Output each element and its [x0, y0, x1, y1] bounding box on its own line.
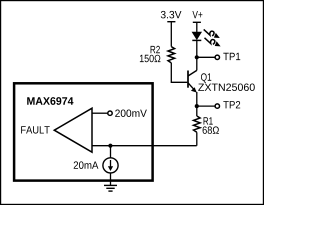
- op-amp comparator U1: [54, 108, 92, 152]
- terminal circle TP1: [215, 55, 219, 59]
- wire LED to node: [196, 40, 198, 70]
- resistor R2: [168, 47, 175, 63]
- label MAX6974: [27, 97, 73, 105]
- label 3.3V: [161, 11, 182, 19]
- wire comparator bottom input across to R1 bottom: [92, 145, 197, 147]
- LED light arrow 2: [205, 38, 221, 47]
- LED light arrow 1: [204, 29, 220, 38]
- label V+: [192, 11, 202, 18]
- IC box MAX6974: [14, 83, 153, 180]
- wire current source to ground: [110, 173, 112, 185]
- label FAULT: [21, 126, 50, 133]
- LED D1: [192, 32, 201, 39]
- label ZXTN25060: [198, 83, 255, 91]
- resistor R1: [194, 116, 201, 132]
- wire V+ to LED: [196, 22, 198, 32]
- node junction at current source: [108, 144, 112, 148]
- ground: [104, 185, 117, 191]
- wire R2 to base: [171, 63, 187, 82]
- label 150ohm: [140, 55, 161, 63]
- label 68ohm: [203, 126, 219, 134]
- label R1: [204, 117, 213, 124]
- wire node to TP2: [197, 105, 215, 107]
- node TP1 junction: [195, 55, 199, 59]
- current source I1 20mA: [103, 158, 118, 173]
- node TP2 junction: [195, 104, 199, 108]
- wire node to TP1: [197, 56, 215, 58]
- terminal circle 200mV: [108, 111, 112, 115]
- label 20mA: [74, 161, 99, 169]
- label R2: [151, 46, 160, 53]
- wire emitter to TP2 node: [196, 92, 198, 116]
- power rail bar V+: [193, 21, 201, 23]
- label 200mV: [115, 109, 147, 117]
- wire R1 bottom: [196, 132, 198, 145]
- terminal circle TP2: [215, 104, 219, 108]
- label TP2: [223, 101, 240, 108]
- label TP1: [223, 53, 240, 60]
- wire junction down to current source: [110, 146, 112, 158]
- power rail bar 3.3V: [167, 21, 175, 23]
- wire comparator top input to 200mV terminal: [92, 112, 108, 114]
- transistor Q1: [187, 71, 189, 88]
- label Q1: [201, 73, 211, 82]
- wire 3.3V to R2: [170, 22, 172, 47]
